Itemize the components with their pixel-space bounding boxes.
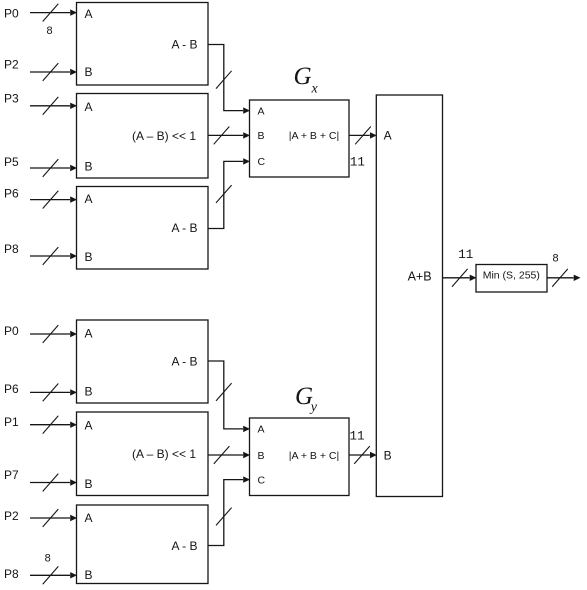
svg-text:A - B: A - B [171, 221, 197, 235]
svg-text:B: B [85, 477, 93, 491]
svg-text:B: B [258, 130, 265, 142]
svg-text:x: x [311, 82, 319, 97]
svg-text:C: C [258, 156, 266, 168]
svg-text:A - B: A - B [171, 354, 197, 368]
svg-text:A: A [85, 192, 93, 206]
svg-text:|A + B + C|: |A + B + C| [289, 130, 339, 142]
svg-text:B: B [258, 450, 265, 462]
svg-text:B: B [85, 385, 93, 399]
svg-text:8: 8 [46, 26, 53, 38]
svg-text:A: A [85, 327, 93, 341]
svg-text:B: B [384, 448, 392, 462]
svg-text:Min (S, 255): Min (S, 255) [483, 269, 540, 281]
svg-text:P8: P8 [4, 242, 19, 256]
svg-text:P8: P8 [4, 567, 19, 581]
svg-text:P5: P5 [4, 155, 19, 169]
svg-text:8: 8 [552, 254, 559, 266]
svg-text:P3: P3 [4, 92, 19, 106]
svg-text:11: 11 [349, 430, 364, 444]
svg-text:A: A [258, 424, 265, 436]
svg-text:11: 11 [458, 248, 473, 262]
svg-text:P2: P2 [4, 57, 19, 71]
svg-text:|A + B + C|: |A + B + C| [289, 450, 339, 462]
svg-text:B: B [85, 250, 93, 264]
svg-text:A: A [258, 105, 265, 117]
svg-text:P0: P0 [4, 324, 19, 338]
svg-text:A: A [85, 511, 93, 525]
svg-text:P7: P7 [4, 468, 19, 482]
svg-text:P2: P2 [4, 509, 19, 523]
svg-text:B: B [85, 568, 93, 582]
svg-text:11: 11 [350, 156, 365, 170]
svg-text:C: C [258, 474, 266, 486]
svg-text:(A – B) << 1: (A – B) << 1 [132, 447, 196, 461]
svg-text:P0: P0 [4, 6, 19, 20]
svg-text:A: A [384, 129, 392, 143]
svg-text:(A – B) << 1: (A – B) << 1 [132, 129, 196, 143]
svg-text:B: B [85, 160, 93, 174]
svg-text:B: B [85, 65, 93, 79]
svg-text:A: A [85, 7, 93, 21]
svg-text:A+B: A+B [408, 270, 432, 284]
svg-text:A: A [85, 100, 93, 114]
svg-text:P6: P6 [4, 382, 19, 396]
svg-text:A - B: A - B [171, 37, 197, 51]
svg-text:A: A [85, 419, 93, 433]
svg-text:A - B: A - B [171, 539, 197, 553]
svg-text:P6: P6 [4, 186, 19, 200]
svg-text:P1: P1 [4, 415, 19, 429]
svg-text:8: 8 [44, 553, 51, 565]
svg-text:y: y [309, 400, 318, 415]
svg-text:G: G [294, 63, 312, 90]
